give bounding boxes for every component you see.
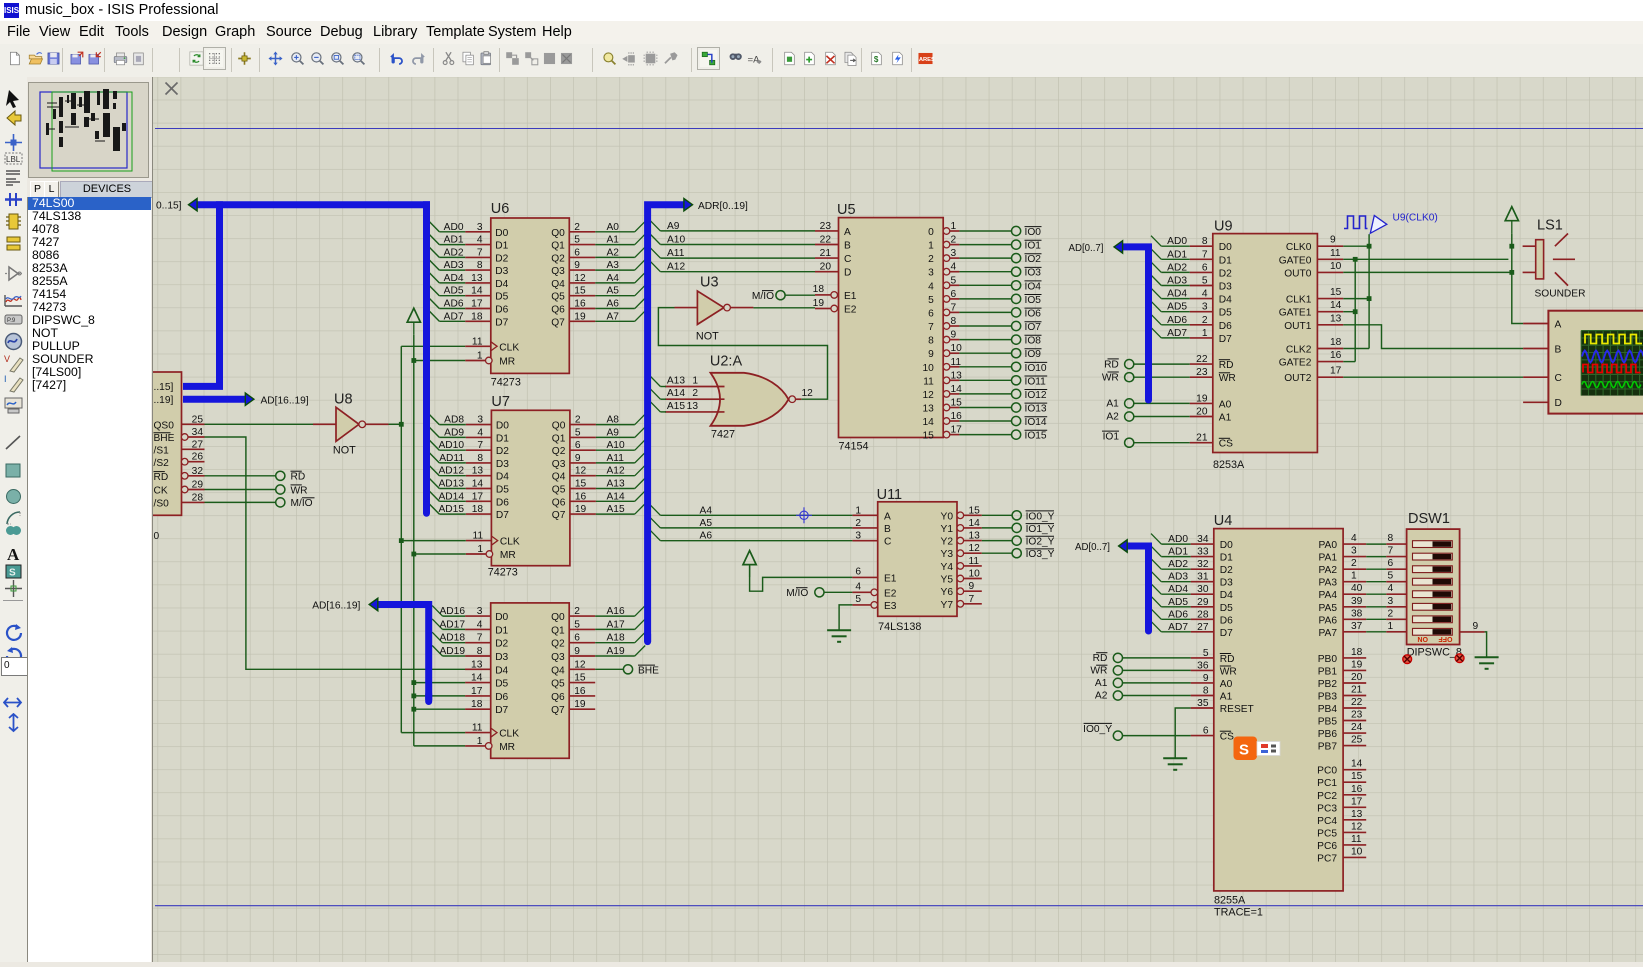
bus vertical AD[0..15] with taps [423,201,430,513]
svg-text:15: 15 [575,479,587,490]
svg-text:14: 14 [969,518,981,529]
U4 pin 4 PA0 [1343,543,1366,545]
U5 pin 18 E1 [815,294,831,296]
scope trace red (square) [1583,365,1641,373]
U2:A input pin 1 (A13) [665,386,725,388]
U4 pin 15 PC1 [1343,781,1366,783]
U9 pin 4 D4 [1190,298,1213,300]
svg-text:U5: U5 [837,202,856,218]
wire AD11 bus tap to U7 D3 [429,452,439,463]
wire A4 bus tap to U11 A [650,505,660,516]
svg-text:A0: A0 [607,222,620,233]
svg-text:19: 19 [574,311,586,322]
U9 pin 5 D3 [1190,285,1213,287]
wire AD15 bus tap to U7 D7 [429,504,439,514]
U4 pin 19 PB1 [1343,669,1366,671]
svg-text:Q3: Q3 [552,459,566,470]
svg-text:PA5: PA5 [1319,603,1338,614]
U5 pin 19 E2 [815,308,831,310]
wire CLK line to U7 CLK [401,540,466,542]
svg-text:A13: A13 [667,376,685,387]
svg-text:PA7: PA7 [1319,628,1338,639]
overview mini-map panel [27,77,152,180]
wire U4 PA5 to DSW1 pin 3 [1366,606,1386,608]
svg-text:GATE2: GATE2 [1279,358,1312,369]
svg-text:D3: D3 [495,652,508,663]
svg-text:D5: D5 [496,485,509,496]
U9 pin 17 OUT2 [1317,376,1343,378]
DSW1 switch element 8 [1413,628,1453,635]
svg-text:RD: RD [1220,654,1235,665]
svg-text:11: 11 [1330,248,1341,259]
U10 pin 17 D6 [465,695,491,697]
svg-text:6: 6 [1388,558,1394,569]
svg-text:AD4: AD4 [1168,584,1188,595]
U9 pin 2 D6 [1190,324,1213,326]
svg-text:IO9: IO9 [1025,349,1042,360]
U5 output pin 7 (6) to terminal IO6 [943,309,950,316]
svg-text:0..15]: 0..15] [156,201,182,212]
svg-text:D5: D5 [495,679,508,690]
svg-text:D6: D6 [495,305,508,316]
wire U6 Q3 to ADR bus (A3) [595,269,635,271]
U4 pin 30 D4 [1191,593,1214,595]
svg-text:Q1: Q1 [551,241,565,252]
svg-text:A1: A1 [607,235,620,246]
U6 pin 6 Q2 [569,256,595,258]
U10 pin 6 Q2 [569,642,595,644]
terminal BHE [623,665,632,674]
svg-text:Y7: Y7 [941,600,954,611]
8086 pin 32 RD [188,475,204,477]
U5 output pin 4 (3) to terminal IO3 [943,268,950,275]
U7 pin 15 Q5 [570,488,596,490]
IC U7 74273 body [491,410,570,565]
svg-text:19: 19 [1196,393,1208,404]
wire U4 PA1 to DSW1 pin 7 [1366,556,1386,558]
svg-text:IO8: IO8 [1025,336,1042,347]
terminal RD to U4 RD [1113,653,1122,662]
wire AD0 bus tap to U4 D0 [1151,534,1161,545]
svg-text:OUT2: OUT2 [1284,373,1312,384]
svg-text:AD[0..7]: AD[0..7] [1069,243,1104,254]
svg-text:23: 23 [1196,367,1208,378]
svg-text:A12: A12 [667,262,685,273]
U9 pin 1 D7 [1190,337,1213,339]
U4 pin 34 D0 [1191,543,1214,545]
devices header [27,180,152,197]
U2:A output stub pin 12 [796,398,802,400]
wire AD14 bus tap to U7 D6 [429,491,439,502]
svg-text:16: 16 [1351,784,1363,795]
svg-text:OFF: OFF [1438,635,1453,642]
svg-text:Q7: Q7 [552,510,566,521]
wire M/IO to U11 E2 [824,591,852,593]
svg-text:Q5: Q5 [552,485,566,496]
svg-text:8: 8 [1388,533,1394,544]
svg-text:AD7: AD7 [444,311,464,322]
svg-text:D7: D7 [1219,334,1232,345]
IC U11 74LS138 body [878,502,957,617]
wire AD4 bus tap to U9 D4 [1151,288,1161,299]
svg-text:E1: E1 [844,291,857,302]
svg-text:PB7: PB7 [1318,742,1338,753]
svg-text:IO4: IO4 [1025,281,1042,292]
wire U7 Q0 to ADR bus (A8) [596,424,635,426]
svg-text:AD3: AD3 [1167,276,1187,287]
svg-text:8253A: 8253A [1213,459,1245,471]
wire AD17 bus tap to U10 D1 [432,619,442,630]
svg-text:OUT0: OUT0 [1284,268,1312,279]
IC U6 74273 body [491,218,570,373]
svg-text:D3: D3 [1219,282,1232,293]
svg-text:S: S [9,568,16,579]
svg-text:D7: D7 [495,317,508,328]
svg-text:D0: D0 [496,421,509,432]
svg-text:PC0: PC0 [1317,766,1337,777]
U6 pin 17 D6 [465,308,491,310]
svg-text:D6: D6 [1220,615,1233,626]
U10 pin 13 D4 [465,668,491,670]
svg-text:D4: D4 [496,472,509,483]
svg-text:DIPSWC_8: DIPSWC_8 [1407,647,1462,659]
svg-text:A5: A5 [700,518,713,529]
U9 pin 8 D0 [1190,245,1213,247]
svg-text:Q3: Q3 [551,266,565,277]
svg-text:AD3: AD3 [1168,572,1188,583]
U5 output pin 8 (7) to terminal IO7 [943,323,950,330]
svg-text:D7: D7 [496,510,509,521]
power symbol VCC above MR line [407,308,420,322]
wire A11 bus tap to U5 C [650,248,660,259]
svg-text:PC1: PC1 [1317,778,1337,789]
bus terminal arrow AD[16..19] (left) [369,598,378,610]
U5 output pin 3 (2) to terminal IO2 [943,255,950,262]
svg-text:16: 16 [575,491,587,502]
wire MR line to U10 D6 [414,695,465,697]
svg-text:5: 5 [855,594,861,605]
svg-text:CLK2: CLK2 [1286,345,1312,356]
svg-text:PB0: PB0 [1318,654,1338,665]
wire U6 Q6 to ADR bus (A6) [595,308,635,310]
svg-text:40: 40 [1351,583,1363,594]
wire A10 bus tap to U5 B [650,234,660,245]
svg-text:A15: A15 [667,401,685,412]
junction GATE line [1353,257,1358,262]
U7 pin 13 D4 [466,475,492,477]
U5 pin 23 A [815,230,839,232]
junction MR line / U7 MR [411,552,416,557]
svg-text:8: 8 [477,453,483,464]
svg-text:A14: A14 [667,388,685,399]
wire U10 Q4 to BHE terminal [595,668,623,670]
svg-text:NOT: NOT [333,445,356,457]
IC U5 74154 body [839,218,944,438]
svg-text:18: 18 [471,311,483,322]
svg-text:U11: U11 [877,487,903,503]
svg-text:18: 18 [1351,647,1363,658]
svg-text:CLK: CLK [499,342,519,353]
U5 output pin 10 (9) to terminal IO9 [943,350,950,357]
svg-text:11: 11 [472,336,483,347]
U4 pin 29 D5 [1191,606,1214,608]
wire U9 OUT1 routed to scope B [1343,325,1523,349]
svg-text:21: 21 [1351,685,1363,696]
svg-text:20: 20 [1351,672,1363,683]
U10 pin 9 Q3 [569,655,595,657]
svg-text:AD5: AD5 [444,286,464,297]
U11 pin 3 C [852,540,877,542]
U5 output pin 16 (14) to terminal IO14 [943,418,950,425]
svg-text:B: B [884,524,891,535]
svg-text:16: 16 [1330,350,1342,361]
svg-text:Q7: Q7 [551,317,565,328]
terminal WR (8086) [205,489,276,491]
terminal IO1 to U9 CS [1125,438,1134,447]
svg-text:12: 12 [574,659,586,670]
svg-text:4: 4 [1388,583,1394,594]
svg-text:AD9: AD9 [444,427,464,438]
svg-text:9: 9 [1330,235,1336,246]
wire AD19 bus tap to U10 D3 [432,646,442,657]
U9 pin 11 GATE0 [1317,258,1343,260]
svg-text:RD: RD [154,472,169,483]
U4 pin 33 D1 [1191,556,1214,558]
svg-text:10: 10 [1330,261,1342,272]
svg-text:Q0: Q0 [552,421,566,432]
U4 pin 25 PB7 [1343,745,1366,747]
svg-text:IO7: IO7 [1025,322,1042,333]
svg-text:3: 3 [477,606,483,617]
svg-text:IO1_Y: IO1_Y [1026,524,1055,535]
svg-text:8: 8 [1203,686,1209,697]
junction MR line / U6 MR [411,358,416,363]
wire AD8 bus tap to U7 D0 [429,414,439,425]
svg-text:A: A [1555,319,1562,330]
U2:A input pin 2 (A14) [665,398,725,400]
U10 pin 2 Q0 [569,615,595,617]
svg-text:33: 33 [1197,547,1209,558]
U4 pin 37 PA7 [1343,631,1366,633]
terminal RD to U9 RD [1125,360,1134,369]
U9 pin 9 CLK0 [1317,245,1343,247]
svg-text:Q5: Q5 [551,679,565,690]
svg-text:LS1: LS1 [1537,217,1563,233]
DSW1 common pin 9 to ground [1460,631,1485,633]
U6 pin 7 D2 [465,256,491,258]
svg-text:2: 2 [692,388,698,399]
svg-text:D5: D5 [1219,308,1232,319]
U5 output pin 17 (15) to terminal IO15 [943,431,950,438]
svg-text:74LS138: 74LS138 [878,621,921,633]
svg-text:74273: 74273 [491,377,521,389]
U10 pin 15 Q5 [569,682,595,684]
U4 pin 17 PC3 [1343,806,1366,808]
window title bar [0,0,1643,21]
U7 pin 12 Q4 [570,475,596,477]
U9 pin 22 RD [1190,363,1213,365]
svg-text:4: 4 [855,582,861,593]
U9 pin 6 D2 [1190,271,1213,273]
svg-text:PC6: PC6 [1317,841,1337,852]
wire U4 RESET to ground [1175,708,1191,758]
wire A12 bus tap to U5 D [650,261,660,272]
svg-text:PA6: PA6 [1319,615,1338,626]
U7 pin 14 D5 [466,488,492,490]
svg-text:28: 28 [192,492,204,503]
svg-text:38: 38 [1351,608,1363,619]
svg-text:13: 13 [969,531,981,542]
U7 pin 7 D2 [466,449,492,451]
svg-text:D5: D5 [1220,603,1233,614]
svg-text:9: 9 [928,349,934,360]
svg-text:6: 6 [1202,262,1208,273]
U4 pin 36 WR [1191,669,1214,671]
svg-text:74273: 74273 [488,567,518,579]
svg-text:17: 17 [471,299,483,310]
ground symbol (DSW1) [1475,656,1499,658]
svg-text:21: 21 [1196,433,1208,444]
svg-text:CK: CK [154,486,168,497]
svg-text:6: 6 [1203,726,1209,737]
terminal A1 to U9 A0 [1125,399,1134,408]
svg-text:PB1: PB1 [1318,666,1338,677]
inverter U8 NOT [336,407,359,441]
wire U6 Q4 to ADR bus (A4) [595,282,635,284]
wire MR line to U10 MR [414,745,465,747]
svg-text:9: 9 [1473,621,1479,632]
bus terminal arrow ADR[0..19] (right) [684,199,693,211]
svg-text:2: 2 [1202,315,1208,326]
svg-text:4: 4 [1202,289,1208,300]
wire MR line to U10 D7 [414,708,465,710]
svg-text:AD13: AD13 [439,479,465,490]
wire A9 bus tap to U5 A [650,220,660,231]
svg-text:RD: RD [1093,653,1108,664]
svg-text:2: 2 [928,254,934,265]
DIP switch DSW1 body [1407,529,1460,644]
svg-text:PC7: PC7 [1317,853,1337,864]
U7 pin 5 Q1 [570,436,596,438]
svg-text:..15]: ..15] [154,382,174,393]
oscilloscope body [1548,311,1643,414]
oscilloscope input C [1523,376,1548,378]
svg-text:B: B [1555,344,1562,355]
U10 pin 11 CLK [465,732,491,734]
svg-text:CLK: CLK [500,537,520,548]
wire AD7 bus tap to U9 D7 [1151,327,1161,338]
wire U2:A output to U3 input [658,308,827,400]
svg-text:15: 15 [574,286,586,297]
svg-text:BHE: BHE [638,666,659,677]
svg-text:2: 2 [1388,608,1394,619]
svg-text:1: 1 [951,221,957,232]
svg-text:8: 8 [477,646,483,657]
svg-text:ON: ON [1418,635,1429,642]
svg-text:CS: CS [1220,732,1234,743]
U10 pin 18 D7 [465,708,491,710]
wire clock source vertical [1368,234,1370,348]
wire VCC/LS1 vertical to scope A [1512,233,1523,323]
wire CLK line to U6 CLK [401,345,465,347]
wire U11 E3 to ground [839,605,852,630]
svg-text:A0: A0 [1220,679,1233,690]
U6 pin 16 Q6 [569,308,595,310]
svg-text:4: 4 [477,619,483,630]
inverter U3 NOT [697,291,724,324]
svg-text:Q0: Q0 [551,612,565,623]
svg-text:3: 3 [1388,596,1394,607]
svg-text:A10: A10 [667,235,685,246]
svg-text:22: 22 [1196,354,1208,365]
U5 output pin 1 (0) to terminal IO0 [943,228,950,235]
svg-text:13: 13 [1351,809,1363,820]
svg-text:10: 10 [922,363,934,374]
svg-text:3: 3 [477,222,483,233]
U4 pin 40 PA4 [1343,593,1366,595]
svg-text:5: 5 [574,235,580,246]
svg-text:19: 19 [574,699,586,710]
svg-text:A8: A8 [607,415,620,426]
svg-text:17: 17 [1351,796,1363,807]
device list [27,197,151,962]
wire AD2 bus tap to U9 D2 [1151,262,1161,273]
8086 pin 29 CK [188,489,204,491]
DSW1 switch element 3 [1413,566,1453,573]
svg-text:A18: A18 [607,633,625,644]
svg-text:6: 6 [855,567,861,578]
svg-text:13: 13 [687,401,699,412]
svg-text:WR: WR [291,485,308,496]
wire AD1 bus tap to U4 D1 [1151,546,1161,557]
svg-text:PC3: PC3 [1317,803,1337,814]
U5 output pin 11 (10) to terminal IO10 [943,364,950,371]
DSW1 switch element 7 [1413,616,1453,623]
wire MR line vertical (V1) [413,335,415,746]
wire U6 Q0 to ADR bus (A0) [595,231,635,233]
junction MR line / U10 D7 [411,707,416,712]
junction CLK line / U7 CLK [399,538,404,543]
svg-text:D6: D6 [1219,321,1232,332]
U10 pin 3 D0 [465,615,491,617]
svg-text:RD: RD [1104,359,1119,370]
U4 pin 39 PA5 [1343,606,1366,608]
svg-text:MR: MR [499,742,515,753]
svg-text:GATE0: GATE0 [1279,255,1312,266]
wire AD7 bus tap to U4 D7 [1151,621,1161,632]
wire AD5 bus tap to U9 D5 [1151,301,1161,312]
svg-text:AD2: AD2 [1167,262,1187,273]
svg-text:A12: A12 [607,466,625,477]
svg-text:E2: E2 [844,305,857,316]
DSW1 switch element 6 [1413,603,1453,610]
svg-text:5: 5 [928,295,934,306]
svg-text:32: 32 [192,466,204,477]
U7 pin 4 D1 [466,436,492,438]
svg-text:U9(CLK0): U9(CLK0) [1393,213,1438,224]
U4 pin 23 PB5 [1343,720,1366,722]
svg-text:=A: =A [747,55,760,66]
svg-text:6: 6 [928,308,934,319]
U10 pin 4 D1 [465,628,491,630]
wire GATE0 long to LS1 column [1343,258,1508,260]
bus terminal arrow AD[0..7] U4 (left) [1119,540,1128,552]
svg-text:IO0_Y: IO0_Y [1083,724,1112,735]
svg-text:4: 4 [928,281,934,292]
U7 pin 6 Q2 [570,449,596,451]
wire U9 OUT2 to scope C [1343,376,1523,378]
U10 pin 7 D2 [465,642,491,644]
